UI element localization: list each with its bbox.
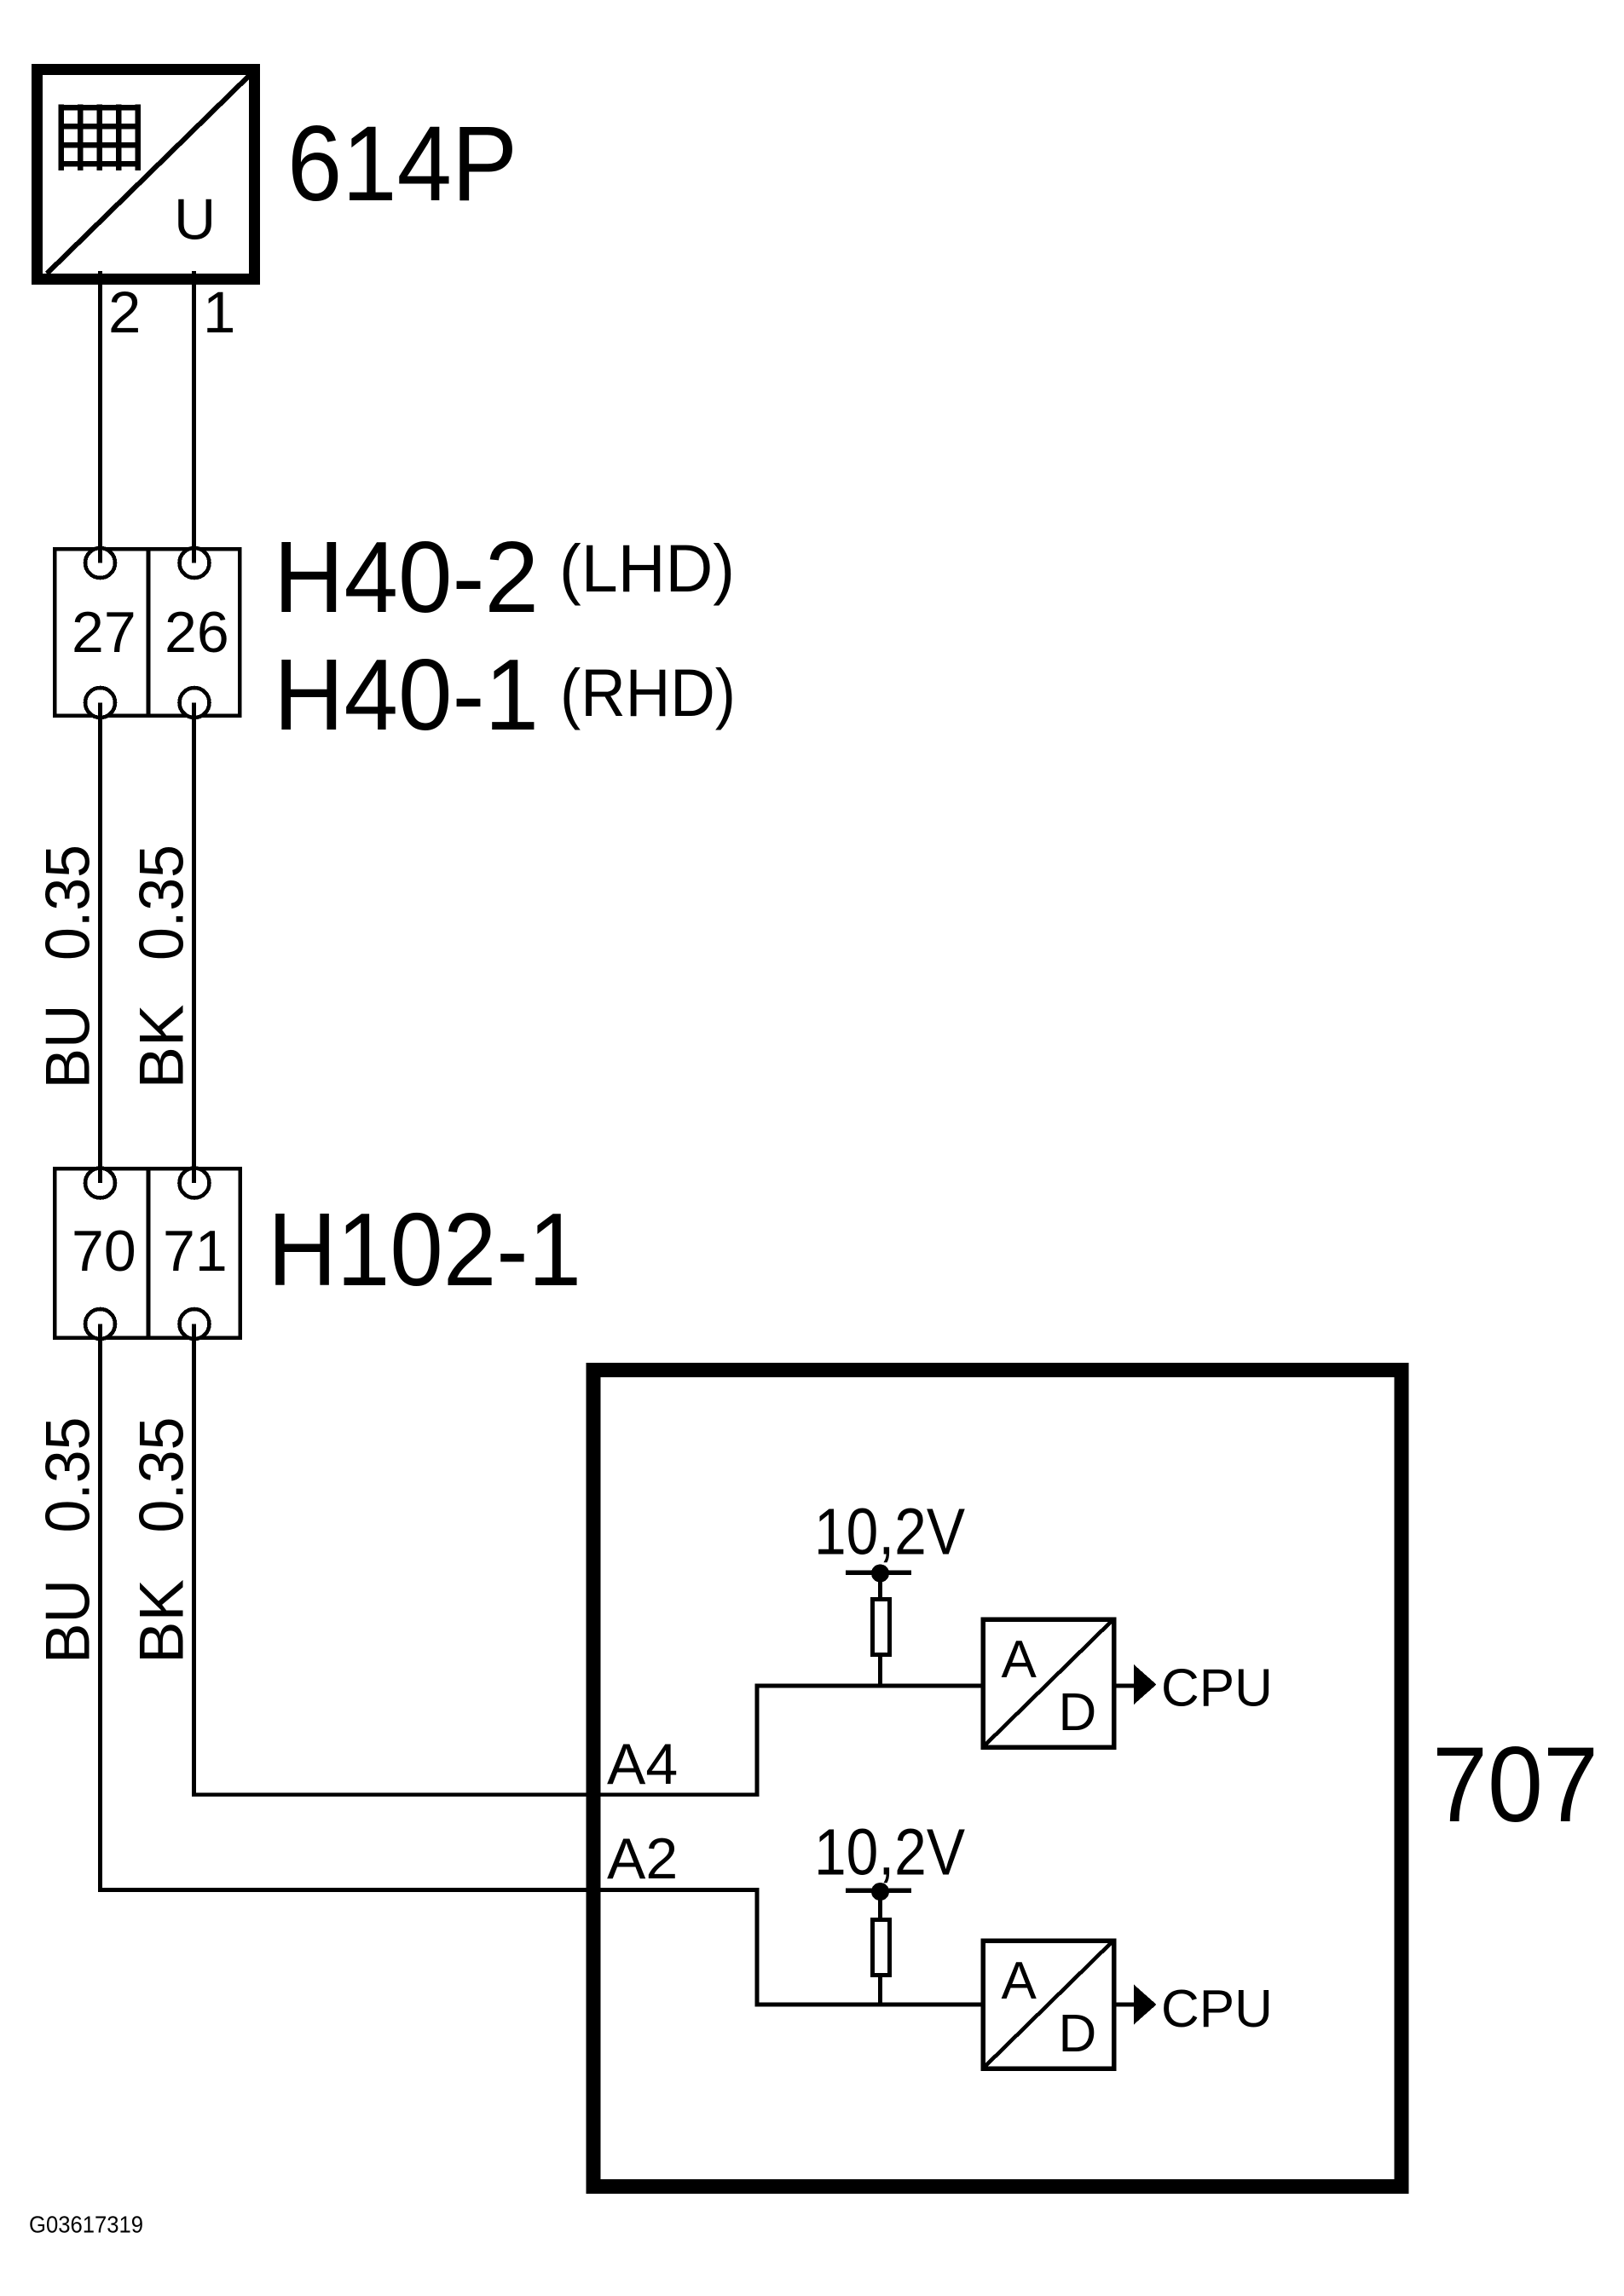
channel 1: wire A/D to arrow: [1114, 1684, 1136, 1688]
svg-text:0.35: 0.35: [128, 1417, 197, 1533]
svg-text:D: D: [1059, 1683, 1097, 1742]
svg-text:10,2V: 10,2V: [814, 1816, 966, 1889]
svg-text:0.35: 0.35: [128, 845, 197, 961]
svg-text:H40-2: H40-2: [274, 521, 539, 634]
svg-text:27: 27: [72, 600, 136, 665]
svg-text:BK: BK: [128, 1579, 197, 1664]
channel 1: arrow head: [1134, 1664, 1157, 1705]
svg-text:70: 70: [72, 1219, 136, 1284]
H102 pin 70 top terminal: [85, 1168, 115, 1198]
svg-text:10,2V: 10,2V: [814, 1496, 966, 1569]
H40 pin 27 bottom terminal: [85, 688, 115, 718]
svg-text:2: 2: [108, 280, 141, 345]
wire 614P pin1 to H40 pin26: [192, 271, 196, 562]
channel 2: A/D diagonal: [985, 1942, 1113, 2068]
channel 2: wire resistor to node: [878, 1976, 882, 2005]
channel 1: A/D converter box: [983, 1619, 1114, 1747]
channel 2: wire dot to resistor: [878, 1892, 882, 1920]
channel 2: arrow head: [1134, 1985, 1157, 2025]
wire label BU 0.35 (lower left wire): [34, 1417, 103, 1664]
channel 2: pull-up resistor: [873, 1920, 890, 1976]
614P diagonal: [47, 75, 250, 274]
svg-text:614P: 614P: [287, 105, 517, 223]
H40 pin 26 bottom terminal: [180, 688, 210, 718]
svg-text:1: 1: [203, 280, 235, 345]
connector H102-1 box: [55, 1168, 240, 1338]
svg-text:A: A: [1002, 1630, 1037, 1689]
channel 1: supply rail bar: [846, 1570, 911, 1575]
wire H40 pin26 to H102 pin71: [192, 703, 196, 1182]
svg-text:(LHD): (LHD): [559, 530, 735, 606]
svg-text:A4: A4: [607, 1732, 678, 1797]
channel 1: A/D diagonal: [985, 1621, 1113, 1746]
svg-text:D: D: [1059, 2005, 1097, 2063]
H102 pin 71 bottom terminal: [180, 1309, 210, 1339]
channel 2: supply rail bar: [846, 1888, 911, 1893]
svg-text:(RHD): (RHD): [560, 655, 736, 730]
channel 2: A/D converter box: [983, 1941, 1114, 2068]
channel 1: pull-up resistor: [873, 1600, 890, 1655]
svg-text:H40-1: H40-1: [274, 638, 539, 752]
H102 pin stub 71 top: [192, 1168, 196, 1183]
wire label BK 0.35 (lower right wire): [128, 1417, 197, 1664]
component 614P sensor box: [38, 70, 255, 280]
svg-text:0.35: 0.35: [34, 845, 103, 961]
connector H102-1 divider: [147, 1168, 151, 1338]
connector H40 box: [55, 549, 240, 716]
svg-text:A2: A2: [607, 1826, 678, 1891]
wire H40 pin27 to H102 pin70: [98, 703, 102, 1182]
ECU box 707: [593, 1370, 1401, 2186]
svg-text:A: A: [1002, 1952, 1037, 2010]
H40 pin 26 top terminal: [180, 548, 210, 578]
svg-text:H102-1: H102-1: [268, 1191, 581, 1307]
svg-text:BK: BK: [128, 1005, 197, 1089]
svg-text:U: U: [174, 187, 216, 252]
channel 1: wire resistor to node: [878, 1655, 882, 1687]
svg-text:BU: BU: [34, 1005, 103, 1089]
H40 pin 27 top terminal: [85, 548, 115, 578]
614P grid symbol: [58, 105, 140, 170]
wire 614P pin2 to H40 pin27: [98, 271, 102, 562]
wire H102 pin71 to ECU pin A4: [194, 1324, 984, 1795]
H102 pin 70 bottom terminal: [85, 1309, 115, 1339]
channel 2: wire A/D to arrow: [1114, 2003, 1136, 2007]
channel 2: junction dot: [871, 1883, 889, 1901]
channel 1: junction dot: [871, 1565, 889, 1583]
H40 pin stub 27 top: [98, 548, 102, 563]
svg-text:G03617319: G03617319: [29, 2212, 143, 2238]
svg-text:0.35: 0.35: [34, 1417, 103, 1533]
svg-text:CPU: CPU: [1161, 1659, 1273, 1717]
H40 pin stub 26 top: [192, 548, 196, 563]
wire label BK 0.35 (upper right wire): [128, 845, 197, 1089]
connector H40 divider: [147, 549, 151, 716]
H102 pin stub 70 top: [98, 1168, 102, 1183]
svg-text:71: 71: [163, 1219, 228, 1284]
svg-text:26: 26: [165, 600, 229, 665]
wire label BU 0.35 (upper left wire): [34, 845, 103, 1089]
wire H102 pin70 to ECU pin A2: [101, 1324, 984, 2005]
svg-text:CPU: CPU: [1161, 1980, 1273, 2039]
svg-text:707: 707: [1432, 1726, 1598, 1844]
H102 pin 71 top terminal: [180, 1168, 210, 1198]
channel 1: wire dot to resistor: [878, 1573, 882, 1600]
svg-text:BU: BU: [34, 1579, 103, 1664]
